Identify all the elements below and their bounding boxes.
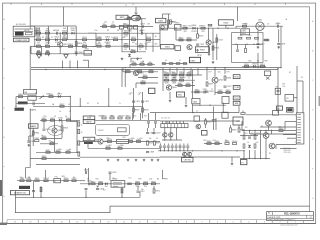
- resistor R846: [195, 90, 200, 93]
- svg-text:1k2: 1k2: [37, 36, 40, 38]
- svg-text:P3: P3: [301, 77, 303, 79]
- svg-text:R24: R24: [189, 25, 192, 27]
- capacitor Cv1: [163, 146, 166, 147]
- dark text J801: [287, 108, 292, 111]
- resistor R801: [36, 31, 41, 34]
- capacitor C821: [132, 101, 140, 103]
- svg-text:IC801: IC801: [158, 20, 163, 22]
- junction y158 x266: [265, 158, 266, 159]
- border zone tick top: [254, 3, 256, 5]
- svg-text:D95: D95: [282, 83, 285, 85]
- resistor R866: [42, 136, 47, 139]
- wire P1 pin row 1: [15, 28, 34, 30]
- capacitor C856: [96, 189, 104, 191]
- svg-text:B: B: [3, 49, 5, 51]
- svg-text:R93: R93: [257, 133, 260, 135]
- wire rn stub top 2: [169, 121, 171, 124]
- wire railEF join: [235, 26, 237, 28]
- svg-text:www.s-manuals.com: www.s-manuals.com: [280, 225, 298, 227]
- capacitor C8a: [111, 24, 116, 27]
- wire long x303: [302, 81, 304, 113]
- svg-text:B+: B+: [192, 82, 194, 84]
- wire crt pin b: [238, 125, 240, 128]
- border zone tick: [224, 220, 226, 224]
- box K801 dark: [190, 57, 201, 62]
- junction railA Q801: [60, 33, 61, 34]
- wire from above x155: [155, 113, 157, 121]
- capacitor C8c: [176, 63, 180, 65]
- svg-text:C841: C841: [46, 129, 51, 131]
- svg-text:R900: R900: [151, 181, 156, 183]
- junction ac1: [70, 96, 71, 97]
- wire bottom bus drop: [14, 191, 16, 198]
- ground row S11 x158: [157, 159, 160, 161]
- box Q801b: [160, 25, 168, 30]
- wire top bus drop x63: [63, 7, 65, 26]
- wire right of module: [263, 39, 270, 41]
- wire cv3 b: [171, 148, 173, 151]
- svg-text:D809: D809: [252, 63, 257, 65]
- capacitor Cv3: [171, 146, 174, 147]
- svg-text:C82: C82: [251, 133, 254, 135]
- resistor R830: [242, 24, 247, 27]
- connector J802 pin 12: [297, 142, 301, 144]
- wire Q802 e: [208, 45, 210, 52]
- svg-text:U801: U801: [175, 23, 180, 25]
- wire x148 cont: [148, 124, 150, 129]
- fuse F1: [26, 33, 33, 35]
- svg-text:C505 47u: C505 47u: [284, 152, 291, 154]
- svg-text:C855: C855: [112, 172, 117, 174]
- dark text block relay: [18, 102, 28, 105]
- wire stub x297-303: [297, 80, 303, 82]
- junction y130 x266: [265, 130, 266, 131]
- svg-text:S9: S9: [277, 108, 279, 110]
- wire stub to rail a: [62, 61, 64, 68]
- dark marks x276 bottom: [277, 106, 283, 110]
- resistor R813: [97, 37, 102, 40]
- border zone tick: [193, 220, 195, 224]
- wire drop S8 2: [176, 68, 178, 75]
- svg-text:V1: V1: [261, 126, 263, 128]
- wire IC802 down: [225, 25, 227, 28]
- svg-text:R846: R846: [195, 90, 200, 92]
- svg-text:4u7: 4u7: [103, 190, 106, 192]
- svg-text:R58: R58: [121, 145, 124, 147]
- wire vdrop 249.5: [249, 131, 251, 135]
- junction bottom a: [85, 197, 86, 198]
- connector J802 pin 7: [297, 129, 301, 131]
- svg-text:R897: R897: [91, 181, 96, 183]
- svg-text:6k8: 6k8: [123, 37, 126, 39]
- box inside DL801: [118, 128, 127, 132]
- junction cv4: [175, 150, 176, 151]
- capacitor Cv2: [167, 146, 170, 147]
- wire drop S8 3: [183, 68, 185, 75]
- ground x213: [212, 61, 215, 63]
- svg-text:B+: B+: [155, 36, 157, 38]
- svg-text:R828: R828: [187, 38, 192, 40]
- resistor R876: [106, 146, 111, 149]
- wire from above x140: [140, 113, 142, 120]
- callout POWER CORD: [14, 38, 30, 42]
- wire cap drop 1: [41, 46, 43, 56]
- box snub b: [128, 25, 133, 29]
- wire join row121: [241, 121, 243, 131]
- junction pair b: [125, 67, 126, 68]
- wire row y143: [40, 143, 58, 145]
- wire to J802 b: [283, 134, 297, 136]
- svg-text:K801: K801: [191, 60, 197, 62]
- svg-text:DEGAUSS COIL: DEGAUSS COIL: [14, 192, 26, 195]
- connector J802 pin 11: [297, 139, 301, 141]
- resistor R897: [91, 181, 96, 184]
- junction B+ rail: [280, 67, 281, 68]
- junction rail b: [69, 67, 70, 68]
- fuse F802: [18, 94, 22, 97]
- junction railB T801: [121, 39, 122, 40]
- svg-text:C822: C822: [145, 101, 150, 103]
- transistor Q801b circle: [161, 26, 164, 29]
- svg-text:C9: C9: [139, 30, 141, 32]
- resistor R840: [164, 73, 169, 76]
- transistor Q807: [98, 139, 108, 144]
- wire to J802 c: [287, 137, 297, 139]
- svg-text:3k3: 3k3: [240, 35, 243, 37]
- border zone tick: [240, 220, 242, 224]
- connector J802 pin 5: [297, 124, 301, 126]
- resistor R867: [46, 150, 51, 153]
- svg-text:R85: R85: [249, 61, 252, 63]
- wire drop x154: [153, 186, 155, 189]
- relay RY801 outline: [28, 96, 36, 100]
- box R9 network: [275, 88, 280, 94]
- capacitor C815: [236, 50, 239, 51]
- svg-text:4u7: 4u7: [174, 77, 177, 79]
- svg-text:10k: 10k: [98, 42, 101, 44]
- svg-text:3R3: 3R3: [61, 176, 64, 178]
- diode D810: [58, 117, 63, 121]
- wire drop Q804: [169, 92, 171, 99]
- svg-text:R850: R850: [244, 64, 249, 66]
- wire drop T802: [185, 97, 187, 104]
- svg-text:R44: R44: [111, 116, 114, 118]
- resistor R861: [35, 138, 40, 141]
- svg-text:R30: R30: [245, 23, 248, 25]
- svg-text:C811: C811: [139, 44, 143, 46]
- resistor R816: [124, 31, 129, 34]
- svg-text:MAINS: MAINS: [31, 109, 37, 112]
- wire row y80: [163, 79, 195, 81]
- wire row y138: [40, 138, 62, 140]
- svg-text:D810: D810: [58, 117, 63, 119]
- svg-text:R835: R835: [149, 69, 154, 71]
- transformer T801 body: [131, 15, 140, 21]
- ground row S11 x118: [117, 159, 120, 161]
- junction y130 x271.5: [271, 130, 272, 131]
- resistor R826b: [238, 37, 242, 39]
- junction bottom x33: [33, 197, 34, 198]
- border zone tick: [100, 220, 102, 224]
- capacitor Cv5: [179, 146, 182, 147]
- wire bus y150: [158, 150, 245, 152]
- border zone tick top: [224, 3, 226, 5]
- svg-text:F802: F802: [18, 94, 22, 96]
- svg-text:CX1: CX1: [32, 101, 36, 103]
- svg-text:6k8: 6k8: [63, 28, 66, 30]
- resistor R892: [243, 144, 245, 148]
- capacitor C805: [46, 51, 49, 52]
- wire cv3 a: [171, 144, 173, 146]
- wire row y40: [176, 39, 197, 41]
- wire drop S8 5: [197, 68, 199, 75]
- capacitor C858: [85, 189, 88, 190]
- wire vdrop2 255: [254, 150, 256, 159]
- svg-text:R838: R838: [144, 110, 149, 112]
- wire railA right: [122, 32, 160, 34]
- svg-text:5W: 5W: [46, 29, 49, 31]
- svg-text:D: D: [3, 108, 5, 110]
- wire long x192 b: [192, 104, 194, 113]
- connector J802 pin 9: [297, 134, 301, 136]
- svg-text:R834: R834: [137, 69, 142, 71]
- diode D806: [192, 25, 197, 29]
- svg-text:1: 1: [295, 115, 296, 117]
- wire c840 up: [28, 136, 30, 141]
- svg-text:R865: R865: [63, 128, 68, 130]
- ground triangle b: [64, 55, 68, 59]
- wire row y143b: [204, 143, 222, 145]
- callout AUDIO: [83, 120, 95, 124]
- wire cv2 a: [167, 144, 169, 146]
- border zone tick: [115, 220, 117, 224]
- resistor R844: [179, 78, 184, 81]
- wire drop x62: [61, 120, 63, 126]
- ground x197: [196, 49, 199, 51]
- switch SW801 outline: [24, 90, 37, 95]
- callout TO DY: [233, 96, 240, 100]
- ground row S11 x136: [135, 159, 138, 161]
- capacitor C813b: [247, 37, 251, 39]
- resistor R822: [168, 20, 175, 24]
- wire pin lead e: [276, 144, 296, 146]
- junction railE a: [175, 28, 176, 29]
- capacitor C822: [141, 101, 149, 103]
- svg-text:C813: C813: [218, 40, 223, 42]
- wire y64 drop: [129, 64, 131, 67]
- wire stub c849: [85, 168, 87, 171]
- svg-text:2u2: 2u2: [256, 142, 259, 144]
- wire cv7 b: [187, 148, 189, 151]
- svg-text:L4: L4: [59, 111, 61, 113]
- module box SMPS secondary: [232, 33, 263, 63]
- wire drop x122: [121, 187, 123, 197]
- svg-text:R817: R817: [131, 37, 136, 39]
- svg-text:C827: C827: [227, 86, 232, 88]
- resistor network RN801 divider 6: [180, 124, 182, 128]
- wire vert x77: [76, 120, 78, 152]
- wire row y148: [88, 147, 160, 149]
- capacitor C818: [277, 44, 285, 46]
- wire cv1 b: [163, 148, 165, 151]
- resistor R875: [128, 139, 133, 142]
- svg-text:50Hz: 50Hz: [242, 33, 246, 35]
- wire row y63 above rails: [162, 63, 187, 65]
- resistor R871: [110, 116, 115, 119]
- resistor R905: [78, 152, 80, 156]
- module oval around Q806: [48, 126, 64, 136]
- box aux J: [273, 111, 279, 116]
- wire stub down x232: [231, 157, 233, 162]
- resistor R902: [40, 187, 42, 191]
- wire pin lead b drop: [284, 122, 286, 131]
- wire plug to bus: [29, 26, 31, 29]
- svg-text:G: G: [312, 198, 314, 200]
- wire vert x160: [159, 28, 161, 46]
- junction x80: [80, 106, 81, 107]
- svg-text:F2: F2: [87, 103, 89, 105]
- svg-text:Q801: Q801: [63, 44, 68, 46]
- capacitor C857: [137, 191, 145, 193]
- resistor network RN801 divider 3: [170, 124, 172, 128]
- resistor R8e: [140, 62, 144, 65]
- resistor R829b: [255, 37, 259, 39]
- diode D804: [97, 44, 102, 47]
- svg-text:C44: C44: [213, 140, 216, 142]
- svg-text:R832: R832: [60, 104, 65, 106]
- callout PC817: [195, 47, 209, 53]
- resistor R811: [82, 37, 86, 40]
- box snub a: [119, 25, 123, 29]
- resistor R8b: [127, 16, 131, 19]
- resistor R881: [212, 120, 216, 122]
- dark text block mains sw: [15, 108, 24, 111]
- capacitor C810: [140, 30, 145, 35]
- resistor R816b: [123, 24, 129, 27]
- wire rn stub top 6: [183, 121, 185, 124]
- diode D809: [252, 63, 257, 67]
- scan smudge right edge: [319, 96, 320, 106]
- wire left bus top stub: [29, 7, 31, 26]
- capacitor C841: [43, 129, 51, 131]
- resistor R899: [135, 181, 140, 184]
- callout CRT PCB: [182, 158, 194, 162]
- wire row y83: [136, 82, 158, 84]
- scan smudge left edge: [0, 180, 2, 196]
- junction rail d: [45, 69, 46, 70]
- svg-text:220u: 220u: [136, 186, 140, 188]
- svg-text:56k: 56k: [83, 42, 86, 44]
- junction T801 left: [129, 30, 130, 31]
- capacitor C850: [215, 141, 220, 144]
- resistor network RN801 divider 7: [184, 124, 186, 128]
- sheet bottom edge line: [3, 223, 316, 225]
- svg-text:C83: C83: [147, 24, 150, 26]
- svg-text:C1: C1: [51, 37, 53, 39]
- ground row S11 x108: [107, 159, 110, 161]
- svg-text:R814: R814: [113, 37, 118, 39]
- svg-text:R99: R99: [138, 179, 141, 181]
- svg-text:a b: a b: [196, 111, 198, 113]
- wire row y140: [162, 139, 182, 141]
- svg-text:47u: 47u: [249, 35, 252, 37]
- junction rail e: [104, 69, 105, 70]
- resistor network RN801 outline: [161, 124, 188, 128]
- svg-text:R20: R20: [155, 43, 158, 45]
- resistor R835: [149, 69, 154, 72]
- ground S3 a: [121, 58, 124, 60]
- resistor R826: [212, 46, 219, 50]
- resistor R814: [113, 37, 118, 40]
- wire T801 pin1 drop: [121, 29, 123, 52]
- resistor R860: [32, 131, 39, 135]
- svg-text:R822: R822: [170, 22, 175, 24]
- wire module inner y44: [232, 43, 263, 45]
- svg-text:2W: 2W: [44, 181, 47, 183]
- border zone tick top: [71, 3, 73, 5]
- resistor R885: [207, 141, 212, 144]
- wire rn down b: [170, 128, 172, 133]
- svg-text:R8b: R8b: [127, 16, 130, 18]
- capacitor C847: [153, 133, 161, 135]
- ground S4 a: [257, 46, 260, 48]
- resistor R862: [42, 118, 47, 121]
- transistor Q815: [263, 133, 269, 139]
- svg-text:C7: C7: [69, 111, 71, 113]
- title block cell divider right: [306, 215, 308, 218]
- svg-text:R864: R864: [66, 118, 71, 120]
- wire cv4 a: [175, 144, 177, 146]
- wire railC right2: [122, 45, 160, 47]
- wire elbow up cluster: [131, 58, 142, 62]
- capacitor C851: [248, 137, 251, 138]
- wire box to T801: [128, 17, 131, 19]
- svg-text:C25: C25: [130, 93, 133, 95]
- diode D801: [71, 30, 76, 34]
- wire rail B: [34, 39, 160, 41]
- wire L802 tap down: [257, 30, 259, 42]
- diode D803: [105, 37, 110, 41]
- title block cell divider left: [272, 212, 274, 216]
- wire vdrop2 266: [265, 150, 267, 159]
- resistor R847: [206, 82, 213, 86]
- resistor R8h: [183, 63, 187, 65]
- wire drop S8 1: [169, 68, 171, 75]
- wire vdrop 260.5: [260, 131, 262, 135]
- junction x258 rail: [257, 67, 258, 68]
- svg-text:C821: C821: [136, 101, 141, 103]
- wire cv6 a: [183, 144, 185, 146]
- svg-text:TH801: TH801: [43, 178, 49, 180]
- svg-text:R57: R57: [109, 145, 112, 147]
- svg-text:D: D: [312, 110, 314, 112]
- wire Q806 e: [54, 133, 56, 152]
- junction module a: [235, 44, 236, 45]
- junction cv2: [168, 150, 169, 151]
- svg-text:R55: R55: [132, 138, 135, 140]
- callout IC803: [161, 45, 175, 49]
- wire pin lead c: [260, 126, 296, 128]
- svg-text:C8: C8: [117, 30, 119, 32]
- wire row y105: [193, 104, 227, 106]
- svg-text:R836: R836: [143, 75, 148, 77]
- wire vdrop 271.5: [271, 131, 273, 135]
- capacitor C842: [50, 141, 55, 144]
- svg-text:4k7: 4k7: [122, 116, 125, 118]
- svg-text:R811: R811: [82, 37, 86, 39]
- wire cv5 a: [179, 144, 181, 146]
- transistor Q811: [196, 124, 201, 129]
